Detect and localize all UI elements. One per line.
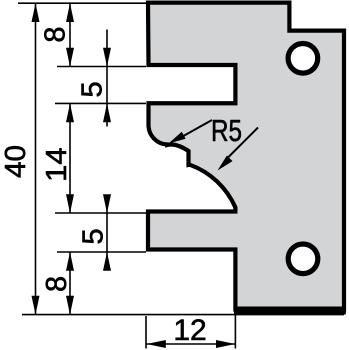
svg-text:8: 8 [40,26,72,42]
extension line 12-left (x=146) [145,316,147,349]
extension line top (y=3.2) [18,2,146,4]
svg-text:14: 14 [41,147,73,182]
svg-text:5: 5 [77,81,109,97]
svg-text:40: 40 [0,145,32,178]
extension line tooth top (y=213) [55,212,146,214]
plate body (profile knife outline) [148,3,344,310]
svg-text:5: 5 [77,228,109,244]
extension line notch1 top (y=66.5) [57,66,146,68]
dimension 12 line [146,343,235,345]
dimension 14 line [69,103,71,213]
extension line bottom (y=314.6) [22,314,344,316]
dimension 40 line [35,3,37,314]
dimension 5 bottom line (outside arrows) [106,196,108,270]
plate bottom edge thickening [234,307,346,315]
extension line notch1 bottom (y=103.4) [55,102,146,104]
leader R5 lower (to convex curve) [226,128,258,160]
hole bottom [288,244,318,274]
hole top [288,44,318,74]
leader R5 upper (to cove) [178,120,212,139]
svg-text:8: 8 [41,276,73,292]
extension line tooth bottom (y=252) [57,251,146,253]
dimension 8 bottom line [69,252,71,315]
dimension 5 top line (outside arrows) [106,30,108,127]
svg-text:12: 12 [173,314,206,347]
svg-text:R5: R5 [211,113,242,148]
extension line 12-right (x=235.4) [234,312,236,349]
dimension 8 top line [69,3,71,66]
